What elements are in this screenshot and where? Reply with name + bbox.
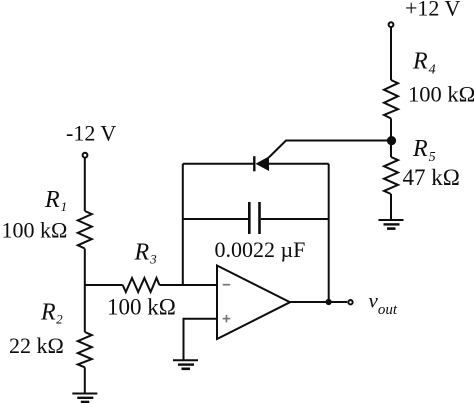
wire: +12V terminal to R4 — [390, 27, 392, 80]
wire: input node to R3 — [85, 284, 123, 286]
wire: R5 to ground — [390, 194, 392, 220]
wire: divider node to diode anode (horizontal + diagonal) — [269, 141, 391, 158]
wire: capacitor branch left — [183, 218, 248, 220]
diode D1 — [256, 156, 270, 171]
wire: R2 to ground — [84, 367, 86, 393]
capacitor C1 — [249, 202, 259, 234]
svg-text:100 kΩ: 100 kΩ — [408, 82, 474, 107]
svg-text:100 kΩ: 100 kΩ — [2, 218, 68, 243]
wire: divider node to R5 — [390, 140, 392, 157]
node: R4/R5 divider junction — [387, 136, 396, 145]
wire: feedback left vertical — [182, 164, 184, 285]
svg-text:100 kΩ: 100 kΩ — [107, 295, 176, 320]
resistor R5 — [384, 157, 398, 194]
svg-text:+12 V: +12 V — [405, 0, 461, 21]
diode D1 cathode bar — [253, 156, 255, 171]
wire: input node to R2 — [84, 285, 86, 332]
wire: feedback right vertical — [328, 164, 330, 302]
wire: non-inverting input to ground — [184, 319, 218, 361]
output terminal — [348, 300, 352, 304]
node: output junction — [326, 299, 332, 305]
resistor R1 — [78, 211, 92, 249]
svg-text:47 kΩ: 47 kΩ — [403, 165, 460, 190]
+12 V terminal — [389, 22, 394, 27]
wire: op-amp output — [290, 301, 347, 303]
pin label: inverting input (-) — [223, 284, 231, 286]
wire: R3 to op-amp inverting input — [159, 284, 217, 286]
resistor R3 — [123, 278, 160, 292]
svg-text:0.0022 µF: 0.0022 µF — [215, 237, 306, 262]
wire: capacitor branch right — [261, 218, 329, 220]
ground (below R5) — [379, 220, 404, 229]
wire: R1 to input node — [84, 249, 86, 286]
ground (below R2) — [72, 394, 97, 403]
wire: top branch left (to diode cathode) — [183, 163, 254, 165]
svg-text:-12 V: -12 V — [66, 121, 116, 146]
resistor R4 — [384, 80, 398, 119]
wire: R4 to divider node — [390, 119, 392, 141]
wire: -12V terminal to R1 — [84, 158, 86, 211]
wire: top branch right (diode anode to right vertical) — [269, 163, 329, 165]
pin label: non-inverting input (+) — [223, 315, 231, 323]
resistor R2 — [78, 332, 92, 367]
svg-text:22 kΩ: 22 kΩ — [9, 333, 64, 358]
op-amp U1 — [217, 266, 290, 340]
ground (op-amp + input) — [173, 360, 198, 369]
-12 V terminal — [83, 153, 88, 158]
